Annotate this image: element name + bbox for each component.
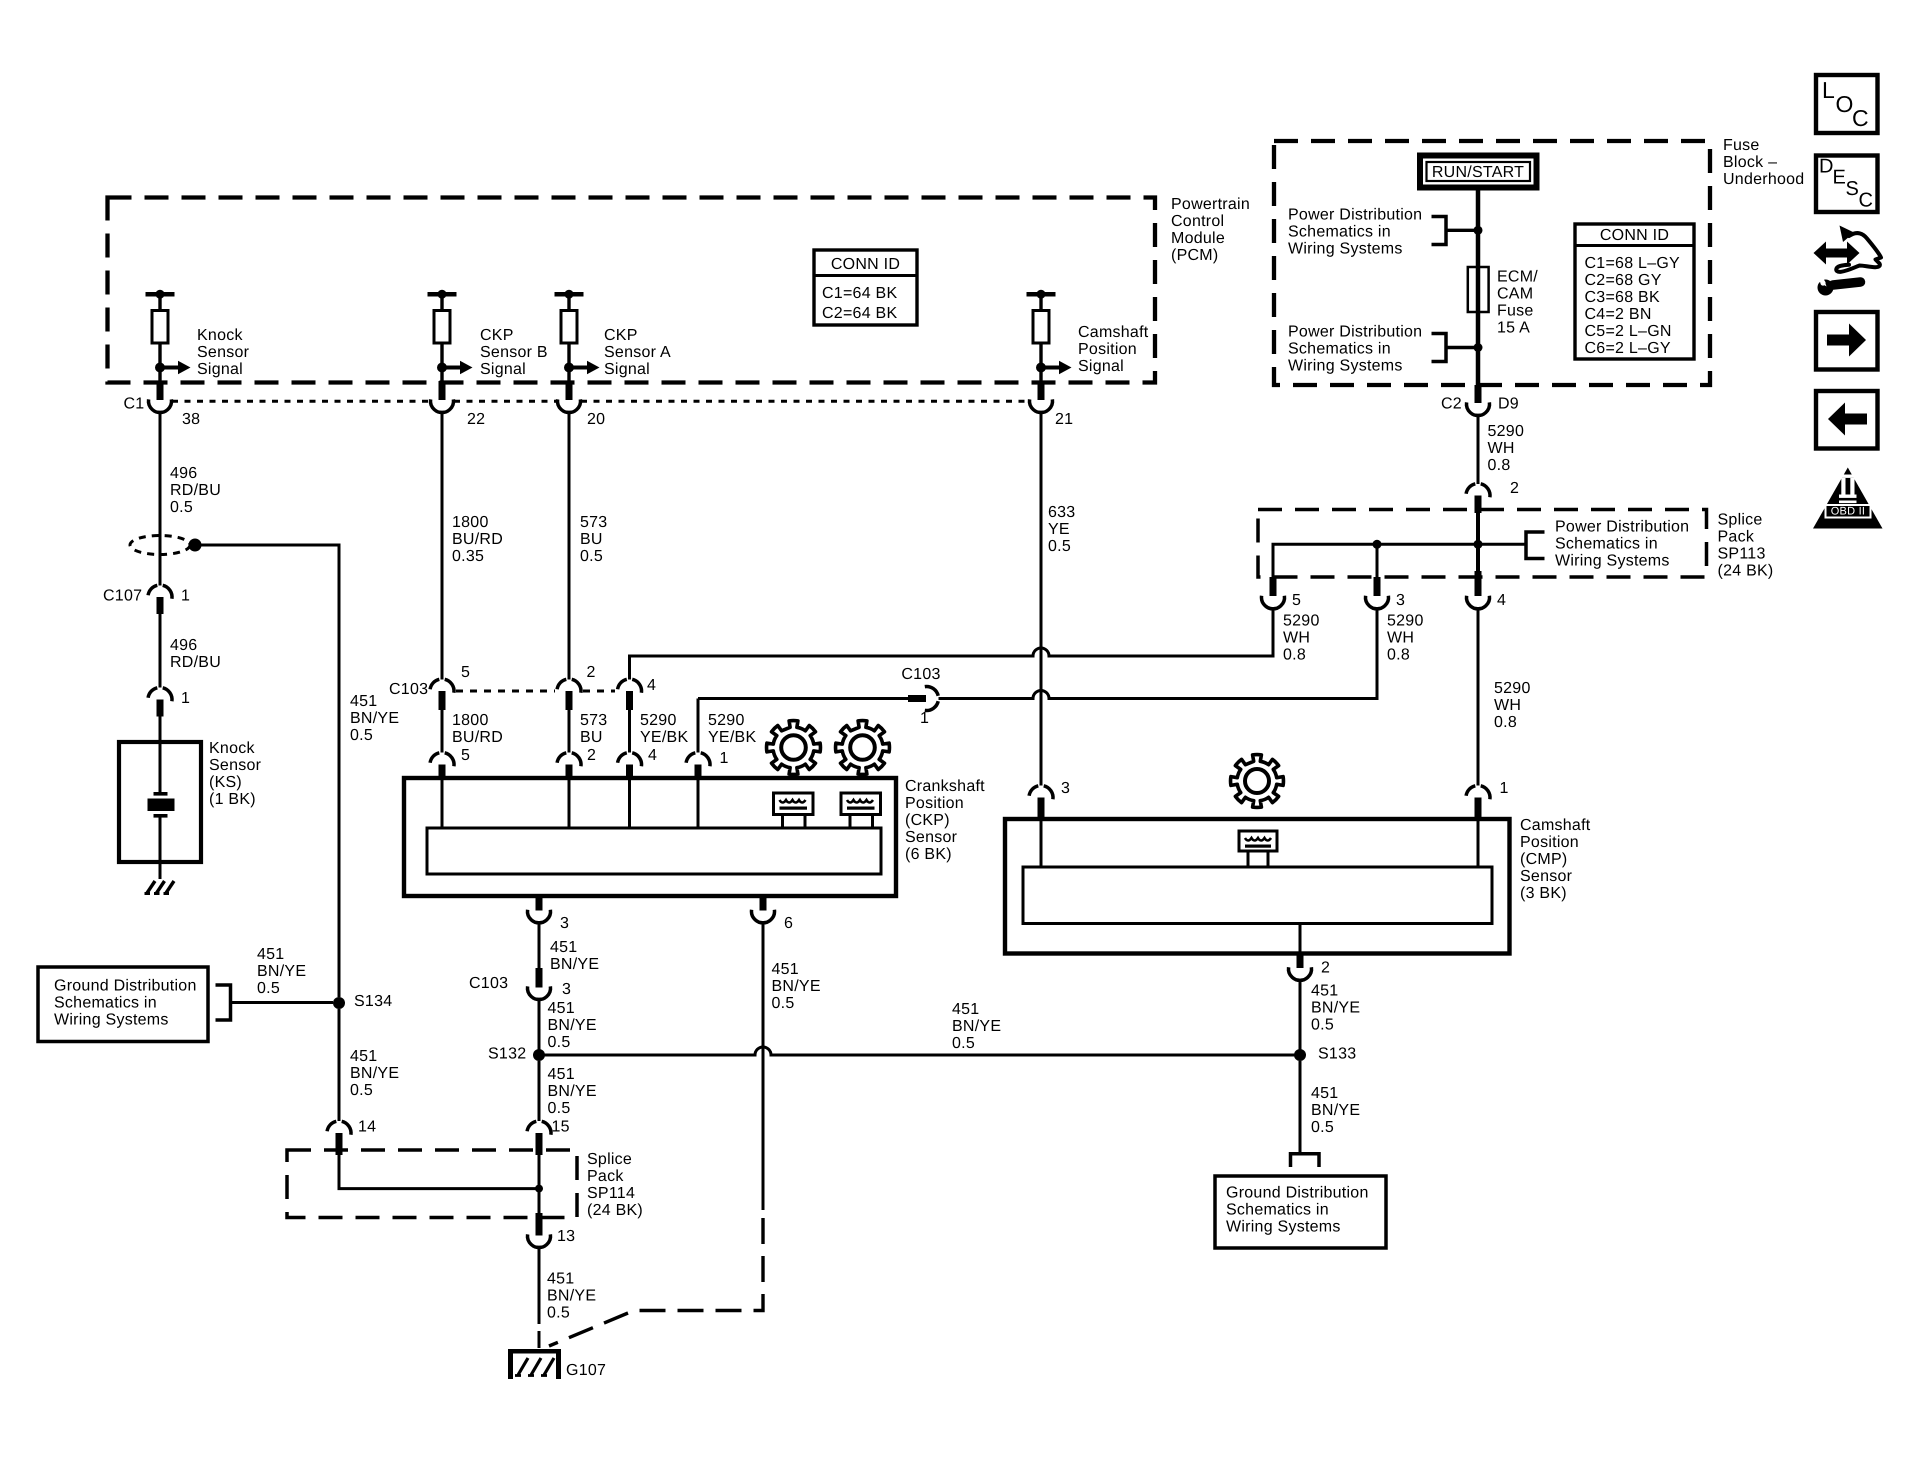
- svg-text:0.5: 0.5: [1311, 1017, 1334, 1034]
- label 451 BN/YE 0.5 (S132 down): [548, 1066, 597, 1117]
- label 5290 YE/BK (pin 1): [708, 712, 756, 746]
- svg-text:633: 633: [1048, 504, 1075, 521]
- wire 5290 WH 0.8 (C2 to splice pack): [1477, 416, 1480, 485]
- svg-text:WH: WH: [1488, 440, 1515, 457]
- svg-text:451: 451: [547, 1271, 574, 1288]
- connector CKP pin 2: [557, 753, 581, 778]
- svg-text:BN/YE: BN/YE: [350, 1065, 399, 1082]
- svg-text:Knock: Knock: [197, 327, 243, 344]
- CONN ID table (fuse block): [1575, 224, 1694, 359]
- svg-text:C5=2 L–GN: C5=2 L–GN: [1585, 323, 1672, 340]
- svg-text:D9: D9: [1498, 396, 1519, 413]
- OBD II triangle icon: [1813, 468, 1883, 529]
- label 451 BN/YE 0.5 (S134 down): [350, 1048, 399, 1099]
- splice S133: [1294, 1049, 1306, 1061]
- svg-text:Sensor: Sensor: [209, 757, 262, 774]
- svg-text:5290: 5290: [1494, 680, 1531, 697]
- svg-text:496: 496: [170, 637, 197, 654]
- svg-text:C1=64 BK: C1=64 BK: [822, 285, 897, 302]
- svg-text:14: 14: [358, 1119, 376, 1136]
- connector SP114 pin 13: [527, 1213, 550, 1248]
- label Splice Pack SP113 (24 BK): [1718, 512, 1774, 580]
- splice dot on shield: [189, 539, 202, 552]
- off-page bracket to Power Distribution (SP113): [1526, 532, 1545, 559]
- svg-text:C: C: [1852, 105, 1869, 131]
- connector C103 pin 5 (top): [430, 679, 454, 710]
- svg-text:CKP: CKP: [604, 327, 638, 344]
- svg-text:0.5: 0.5: [1048, 538, 1071, 555]
- svg-text:0.5: 0.5: [1311, 1119, 1334, 1136]
- svg-text:Schematics in: Schematics in: [54, 995, 157, 1012]
- label 451 BN/YE 0.5 (S134 left): [257, 946, 306, 997]
- knock sensor piezo element: [148, 742, 175, 879]
- Ground Distribution box (left): [38, 967, 208, 1042]
- svg-text:0.5: 0.5: [350, 727, 373, 744]
- svg-text:4: 4: [647, 677, 656, 694]
- connector SP114 pin 14: [327, 1121, 351, 1155]
- label Ground Distribution Schematics in Wiring Systems (left): [54, 978, 197, 1029]
- svg-text:C103: C103: [901, 666, 940, 683]
- svg-text:(CKP): (CKP): [905, 812, 950, 829]
- svg-text:RD/BU: RD/BU: [170, 654, 221, 671]
- svg-text:BN/YE: BN/YE: [1311, 1102, 1360, 1119]
- svg-text:1: 1: [920, 710, 929, 727]
- svg-text:0.5: 0.5: [952, 1035, 975, 1052]
- label Crankshaft Position (CKP) Sensor (6 BK): [905, 778, 985, 863]
- svg-text:(1 BK): (1 BK): [209, 791, 256, 808]
- svg-text:0.35: 0.35: [452, 548, 484, 565]
- svg-text:BN/YE: BN/YE: [548, 1083, 597, 1100]
- label Ground Distribution Schematics in Wiring Systems (right): [1226, 1185, 1369, 1236]
- svg-text:5: 5: [1292, 592, 1301, 609]
- svg-text:Sensor: Sensor: [1520, 868, 1573, 885]
- svg-text:Wiring Systems: Wiring Systems: [1288, 241, 1403, 258]
- wire 573 BU (C103-2 to CKP): [568, 710, 571, 753]
- svg-text:C4=2 BN: C4=2 BN: [1585, 306, 1652, 323]
- wire 451 BN/YE (CKP-3 down): [538, 923, 541, 968]
- svg-text:451: 451: [550, 939, 577, 956]
- in-line connector C103 row (pins 5,2,4): [456, 690, 615, 693]
- svg-text:5290: 5290: [1283, 613, 1320, 630]
- svg-text:YE/BK: YE/BK: [640, 729, 688, 746]
- svg-text:Wiring Systems: Wiring Systems: [1555, 553, 1670, 570]
- svg-text:573: 573: [580, 712, 607, 729]
- label 573 BU: [580, 712, 607, 746]
- svg-text:Powertrain: Powertrain: [1171, 196, 1250, 213]
- off-page bracket (ground distribution right): [1291, 1154, 1320, 1167]
- connector SP113 pin 5: [1261, 577, 1284, 609]
- label 633 YE 0.5: [1048, 504, 1075, 555]
- svg-text:CONN ID: CONN ID: [1600, 227, 1669, 244]
- svg-text:3: 3: [562, 981, 571, 998]
- DESC icon box: [1816, 155, 1878, 212]
- svg-text:15 A: 15 A: [1497, 320, 1530, 337]
- connector SP113 pin 3: [1365, 577, 1388, 609]
- svg-text:(6 BK): (6 BK): [905, 846, 952, 863]
- svg-text:20: 20: [587, 411, 605, 428]
- dashed ground path from CKP-6 wire to G107: [549, 1218, 763, 1346]
- Fuse Block - Underhood dashed box: [1274, 141, 1710, 385]
- svg-text:3: 3: [1061, 780, 1070, 797]
- wire RUN/START to fuse: [1476, 191, 1481, 386]
- Splice Pack SP114 dashed box: [287, 1150, 577, 1218]
- svg-text:Wiring Systems: Wiring Systems: [54, 1012, 169, 1029]
- svg-text:RD/BU: RD/BU: [170, 482, 221, 499]
- wire S133 to ground distribution: [1299, 1061, 1302, 1153]
- svg-text:BN/YE: BN/YE: [257, 963, 306, 980]
- svg-text:YE: YE: [1048, 521, 1070, 538]
- connector CMP pin 3: [1029, 786, 1053, 819]
- PCM pin resistor symbol at x=569: [555, 290, 600, 381]
- svg-text:451: 451: [548, 1000, 575, 1017]
- svg-text:Underhood: Underhood: [1723, 171, 1804, 188]
- svg-text:0.5: 0.5: [257, 980, 280, 997]
- svg-text:15: 15: [552, 1119, 570, 1136]
- svg-text:C103: C103: [469, 975, 508, 992]
- svg-text:BN/YE: BN/YE: [548, 1017, 597, 1034]
- label 451 BN/YE 0.5 (S132-S133): [952, 1001, 1001, 1052]
- svg-text:WH: WH: [1494, 697, 1521, 714]
- svg-text:Signal: Signal: [604, 361, 650, 378]
- SP113 internal bus wire: [1273, 513, 1526, 577]
- svg-text:Crankshaft: Crankshaft: [905, 778, 985, 795]
- svg-text:451: 451: [1311, 1085, 1338, 1102]
- LOC icon box: [1816, 75, 1878, 133]
- svg-text:2: 2: [587, 747, 596, 764]
- svg-text:G107: G107: [566, 1362, 606, 1379]
- connector C103 pin 4 (top): [618, 679, 642, 710]
- svg-text:4: 4: [648, 747, 657, 764]
- connector C1 dotted harness line: [172, 400, 1029, 403]
- wire 496 RD/BU (C107 to KS): [159, 614, 162, 688]
- svg-text:C2=64 BK: C2=64 BK: [822, 305, 897, 322]
- connector SP113 pin 4: [1466, 571, 1489, 609]
- Knock Sensor (KS) box: [119, 742, 201, 862]
- svg-text:D: D: [1819, 155, 1834, 177]
- svg-text:(24 BK): (24 BK): [1718, 563, 1774, 580]
- svg-text:21: 21: [1055, 411, 1073, 428]
- svg-text:(PCM): (PCM): [1171, 247, 1218, 264]
- svg-text:C: C: [1859, 189, 1874, 211]
- label 451 BN/YE 0.5 (pin 13): [547, 1271, 596, 1322]
- label Fuse Block - Underhood: [1723, 137, 1804, 188]
- wire 451 BN/YE (CKP-6 down): [762, 923, 765, 1210]
- drain wire to S134: [195, 545, 339, 997]
- svg-text:Block –: Block –: [1723, 154, 1777, 171]
- svg-text:Power Distribution: Power Distribution: [1288, 324, 1422, 341]
- svg-text:S132: S132: [488, 1046, 526, 1063]
- CONN ID table (PCM): [814, 250, 917, 325]
- svg-text:0.5: 0.5: [772, 995, 795, 1012]
- svg-text:1: 1: [720, 750, 729, 767]
- svg-text:1800: 1800: [452, 514, 489, 531]
- svg-text:C3=68 BK: C3=68 BK: [1585, 289, 1660, 306]
- wire 633 YE 0.5 (pin 21 down): [1040, 413, 1043, 786]
- wire 1800 BU/RD (C103-5 to CKP): [441, 710, 444, 753]
- svg-text:C1: C1: [124, 396, 145, 413]
- label Camshaft Position Signal: [1078, 324, 1149, 375]
- wire 451 BN/YE 0.5 (S132 to S133) with crossover hop: [539, 1047, 1300, 1055]
- svg-text:(24 BK): (24 BK): [587, 1202, 643, 1219]
- svg-text:S: S: [1846, 178, 1860, 200]
- svg-text:(KS): (KS): [209, 774, 242, 791]
- CKP coil element 2: [841, 793, 881, 828]
- svg-text:Pack: Pack: [1718, 529, 1755, 546]
- connector C107 pin 1: [148, 585, 172, 614]
- svg-text:Ground Distribution: Ground Distribution: [54, 978, 197, 995]
- svg-text:Ground Distribution: Ground Distribution: [1226, 1185, 1369, 1202]
- svg-text:Knock: Knock: [209, 740, 255, 757]
- SP114 internal bus wire: [339, 1155, 543, 1213]
- svg-text:13: 13: [557, 1228, 575, 1245]
- svg-text:BU: BU: [580, 729, 603, 746]
- label 451 BN/YE (CKP-3): [550, 939, 599, 973]
- label 5290 WH 0.8 (pin 5): [1283, 613, 1320, 664]
- label Splice Pack SP114 (24 BK): [587, 1151, 643, 1219]
- label 5290 WH 0.8 (pin 4): [1494, 680, 1531, 731]
- svg-text:451: 451: [952, 1001, 979, 1018]
- svg-text:CAM: CAM: [1497, 286, 1533, 303]
- wire 5290 WH (SP113-5 to C103-4) with crossover hop: [630, 609, 1274, 680]
- svg-text:2: 2: [1510, 480, 1519, 497]
- Ground Distribution box (right): [1215, 1176, 1386, 1248]
- svg-text:5290: 5290: [640, 712, 677, 729]
- svg-text:0.5: 0.5: [350, 1082, 373, 1099]
- svg-text:ECM/: ECM/: [1497, 269, 1538, 286]
- label 5290 YE/BK (pin 4): [640, 712, 688, 746]
- in-line connector C103 pin 1 (horizontal): [698, 686, 938, 710]
- label CKP Sensor A Signal: [604, 327, 671, 378]
- PCM pin resistor symbol at x=1041: [1027, 290, 1072, 381]
- svg-text:BN/YE: BN/YE: [550, 956, 599, 973]
- svg-text:573: 573: [580, 514, 607, 531]
- svg-text:451: 451: [350, 1048, 377, 1065]
- svg-text:(3 BK): (3 BK): [1520, 885, 1567, 902]
- RUN/START box: [1420, 156, 1537, 188]
- svg-text:0.8: 0.8: [1494, 714, 1517, 731]
- connector C1 pin 38: [148, 381, 171, 413]
- svg-text:(CMP): (CMP): [1520, 851, 1567, 868]
- svg-text:Position: Position: [1520, 834, 1579, 851]
- svg-text:Schematics in: Schematics in: [1288, 341, 1391, 358]
- gear icon 1 (CKP): [767, 721, 821, 775]
- forward arrow icon box: [1816, 312, 1878, 370]
- connector CKP pin 5: [430, 753, 454, 778]
- label Power Distribution Schematics in Wiring Systems (SP113): [1555, 519, 1689, 570]
- connector C103 pin 3 (ground): [527, 968, 550, 1000]
- off-page bracket to Power Distribution (lower): [1432, 334, 1483, 362]
- svg-text:Sensor A: Sensor A: [604, 344, 671, 361]
- splice S134: [333, 997, 345, 1009]
- svg-text:5290: 5290: [1488, 423, 1525, 440]
- svg-text:Power Distribution: Power Distribution: [1288, 207, 1422, 224]
- label 1800 BU/RD: [452, 712, 503, 746]
- svg-text:C2=68 GY: C2=68 GY: [1585, 272, 1662, 289]
- label Powertrain Control Module (PCM): [1171, 196, 1250, 264]
- svg-text:BN/YE: BN/YE: [772, 978, 821, 995]
- label Knock Sensor Signal: [197, 327, 250, 378]
- connector KS pin 1: [148, 688, 172, 717]
- wire 496 RD/BU 0.5 (pin 38 down): [159, 413, 162, 586]
- PCM (Powertrain Control Module) dashed box: [108, 198, 1156, 383]
- Splice Pack SP113 dashed box: [1258, 510, 1707, 578]
- wire 5290 WH (SP113-3 to C103-1) with crossover hop: [939, 609, 1378, 699]
- connector SP114 pin 15: [527, 1121, 551, 1155]
- svg-text:Schematics in: Schematics in: [1555, 536, 1658, 553]
- svg-text:Schematics in: Schematics in: [1226, 1202, 1329, 1219]
- svg-text:YE/BK: YE/BK: [708, 729, 756, 746]
- svg-text:Module: Module: [1171, 230, 1225, 247]
- svg-text:C107: C107: [103, 588, 142, 605]
- svg-text:Power Distribution: Power Distribution: [1555, 519, 1689, 536]
- connector CMP pin 1: [1466, 786, 1490, 819]
- svg-text:Position: Position: [905, 795, 964, 812]
- svg-text:451: 451: [257, 946, 284, 963]
- label Power Distribution Schematics in Wiring Systems (lower): [1288, 324, 1422, 375]
- label Knock Sensor (KS) (1 BK): [209, 740, 262, 808]
- svg-text:Fuse: Fuse: [1723, 137, 1760, 154]
- connector CKP pin 3 (bottom): [527, 896, 550, 923]
- label 5290 WH 0.8: [1488, 423, 1525, 474]
- svg-text:CKP: CKP: [480, 327, 514, 344]
- svg-text:38: 38: [182, 411, 200, 428]
- svg-text:1: 1: [181, 588, 190, 605]
- svg-text:Signal: Signal: [480, 361, 526, 378]
- svg-text:2: 2: [1321, 960, 1330, 977]
- svg-text:496: 496: [170, 465, 197, 482]
- label 5290 WH 0.8 (pin 3): [1387, 613, 1424, 664]
- svg-text:5: 5: [461, 747, 470, 764]
- svg-text:WH: WH: [1387, 630, 1414, 647]
- gear icon (CMP): [1231, 755, 1284, 808]
- svg-text:451: 451: [350, 693, 377, 710]
- svg-text:Splice: Splice: [587, 1151, 632, 1168]
- Camshaft Position (CMP) Sensor box: [1005, 819, 1510, 954]
- off-page bracket (ground distribution left): [216, 985, 334, 1020]
- svg-text:Splice: Splice: [1718, 512, 1763, 529]
- splice S132: [533, 1049, 545, 1061]
- svg-text:BU/RD: BU/RD: [452, 729, 503, 746]
- PCM pin resistor symbol at x=442: [428, 290, 473, 381]
- shield ellipse (dashed) on knock sensor wire: [130, 536, 190, 555]
- svg-text:BN/YE: BN/YE: [547, 1288, 596, 1305]
- connector SP113 pin 2: [1466, 484, 1490, 513]
- label 451 BN/YE 0.5 (S133 down): [1311, 1085, 1360, 1136]
- svg-text:0.5: 0.5: [548, 1100, 571, 1117]
- svg-text:Sensor: Sensor: [197, 344, 250, 361]
- connector C2 pin D9: [1466, 385, 1489, 416]
- svg-text:6: 6: [784, 915, 793, 932]
- svg-text:BU/RD: BU/RD: [452, 531, 503, 548]
- svg-text:SP113: SP113: [1718, 546, 1766, 563]
- connector C103 pin 2 (top): [557, 679, 581, 710]
- svg-text:5290: 5290: [1387, 613, 1424, 630]
- svg-text:Control: Control: [1171, 213, 1224, 230]
- svg-text:S133: S133: [1318, 1046, 1356, 1063]
- svg-text:BN/YE: BN/YE: [1311, 1000, 1360, 1017]
- label 496 RD/BU 0.5: [170, 465, 221, 516]
- label 451 BN/YE 0.5 (drain wire): [350, 693, 399, 744]
- svg-text:Wiring Systems: Wiring Systems: [1226, 1219, 1341, 1236]
- wire S132 to SP114 pin 15: [538, 1061, 541, 1121]
- wire 451 BN/YE 0.5 (CMP-2 to S133): [1299, 980, 1302, 1055]
- svg-text:0.8: 0.8: [1283, 647, 1306, 664]
- svg-text:451: 451: [548, 1066, 575, 1083]
- connector CKP pin 6 (bottom): [751, 896, 774, 923]
- diagnostic tool icon (double arrow, swoosh, wrench): [1810, 226, 1881, 296]
- wire 451 BN/YE 0.5 (pin 13 to G107): [538, 1248, 541, 1349]
- connector CKP pin 1: [686, 753, 710, 778]
- svg-text:BN/YE: BN/YE: [350, 710, 399, 727]
- svg-text:Pack: Pack: [587, 1168, 624, 1185]
- svg-text:Fuse: Fuse: [1497, 303, 1534, 320]
- connector CMP pin 2 (bottom): [1288, 924, 1311, 981]
- svg-text:451: 451: [772, 961, 799, 978]
- wire 5290 YE/BK (C103-4 to CKP): [628, 710, 631, 753]
- svg-text:O: O: [1836, 91, 1854, 117]
- PCM pin resistor symbol at x=160: [146, 290, 191, 381]
- svg-text:Signal: Signal: [1078, 358, 1124, 375]
- svg-text:RUN/START: RUN/START: [1432, 164, 1524, 181]
- wire 5290 WH 0.8 (SP113-4 to CMP-1): [1477, 609, 1480, 786]
- label Power Distribution Schematics in Wiring Systems (upper): [1288, 207, 1422, 258]
- svg-text:L: L: [1822, 77, 1835, 103]
- connector C1 pin 20: [557, 381, 580, 413]
- label 451 BN/YE 0.5 (CKP-6): [772, 961, 821, 1012]
- connector C1 pin 21: [1029, 381, 1052, 413]
- wire 5290 YE/BK (C103-1 to CKP): [697, 699, 700, 753]
- svg-text:1: 1: [181, 690, 190, 707]
- wire 451 BN/YE 0.5 (C103-3 to S132): [538, 1000, 541, 1056]
- svg-text:C6=2 L–GY: C6=2 L–GY: [1585, 340, 1671, 357]
- gear icon 2 (CKP): [836, 721, 890, 775]
- label 1800 BU/RD 0.35: [452, 514, 503, 565]
- svg-text:22: 22: [467, 411, 485, 428]
- svg-text:C1=68 L–GY: C1=68 L–GY: [1585, 255, 1681, 272]
- knock sensor case ground: [145, 881, 175, 894]
- svg-text:CONN ID: CONN ID: [831, 256, 900, 273]
- label Camshaft Position (CMP) Sensor (3 BK): [1520, 817, 1591, 902]
- svg-text:0.5: 0.5: [580, 548, 603, 565]
- label 451 BN/YE 0.5 (CMP-2): [1311, 983, 1360, 1034]
- svg-text:3: 3: [560, 915, 569, 932]
- ground G107 symbol: [508, 1349, 561, 1379]
- svg-text:Schematics in: Schematics in: [1288, 224, 1391, 241]
- label CKP Sensor B Signal: [480, 327, 548, 378]
- fuse ECM/CAM 15A: [1468, 267, 1489, 312]
- label 573 BU 0.5: [580, 514, 607, 565]
- svg-text:BU: BU: [580, 531, 603, 548]
- connector CKP pin 4: [618, 753, 642, 778]
- svg-text:Wiring Systems: Wiring Systems: [1288, 358, 1403, 375]
- svg-text:5290: 5290: [708, 712, 745, 729]
- svg-text:S134: S134: [354, 993, 392, 1010]
- CMP coil element: [1239, 831, 1277, 867]
- svg-text:0.5: 0.5: [547, 1305, 570, 1322]
- svg-text:451: 451: [1311, 983, 1338, 1000]
- svg-text:0.5: 0.5: [548, 1034, 571, 1051]
- svg-text:C2: C2: [1441, 396, 1462, 413]
- wire 1800 BU/RD 0.35 (pin 22 down): [441, 413, 444, 680]
- svg-text:1800: 1800: [452, 712, 489, 729]
- svg-text:E: E: [1833, 166, 1847, 188]
- svg-text:0.8: 0.8: [1488, 457, 1511, 474]
- label ECM/CAM Fuse 15 A: [1497, 269, 1538, 337]
- svg-text:Camshaft: Camshaft: [1078, 324, 1149, 341]
- svg-text:5: 5: [461, 664, 470, 681]
- svg-text:Sensor: Sensor: [905, 829, 958, 846]
- label 451 BN/YE 0.5 (to S132): [548, 1000, 597, 1051]
